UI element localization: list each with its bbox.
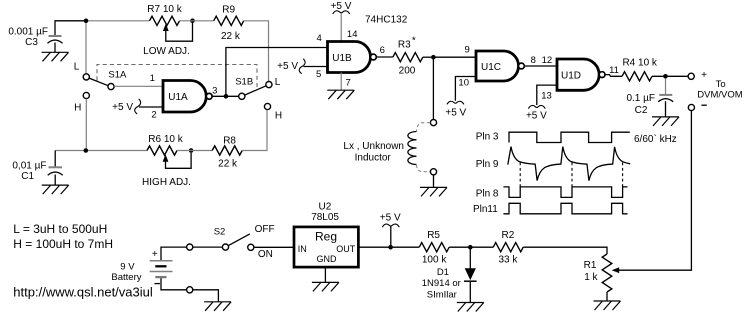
wire regulator OUT to R5 bbox=[358, 246, 419, 248]
svg-text:6/60` kHz: 6/60` kHz bbox=[634, 133, 677, 145]
wire pin3 node up and right to U1B pin4 bbox=[226, 48, 328, 97]
terminal Lx top circle bbox=[430, 120, 436, 126]
svg-text:+5 V: +5 V bbox=[112, 102, 133, 113]
battery B1 bbox=[150, 260, 173, 262]
node R7 bracket to top wire bbox=[190, 19, 195, 24]
svg-text:http://www.qsl.net/va3iul: http://www.qsl.net/va3iul bbox=[13, 285, 153, 300]
terminal Lx bottom circle bbox=[430, 169, 436, 175]
svg-text:78L05: 78L05 bbox=[311, 212, 339, 223]
capacitor C1 bbox=[54, 151, 56, 167]
nand gate U1C bbox=[476, 51, 519, 81]
svg-text:R4 10 k: R4 10 k bbox=[622, 57, 657, 68]
svg-text:6: 6 bbox=[380, 45, 385, 56]
switch S1B common contact bbox=[239, 93, 245, 99]
svg-text:R9: R9 bbox=[222, 4, 235, 15]
switch S1A blade bbox=[89, 78, 108, 86]
svg-text:Pln 3: Pln 3 bbox=[476, 132, 499, 143]
svg-text:0.001 µF: 0.001 µF bbox=[8, 27, 48, 38]
svg-text:R2: R2 bbox=[502, 230, 515, 241]
svg-text:5: 5 bbox=[316, 69, 321, 80]
svg-text:U1A: U1A bbox=[168, 92, 188, 103]
ground U1B pin7 bbox=[327, 90, 354, 99]
svg-text:200: 200 bbox=[399, 65, 416, 76]
svg-text:+5 V: +5 V bbox=[277, 61, 298, 72]
waveform pin 8 bbox=[503, 187, 627, 198]
U1D output bubble bbox=[599, 72, 605, 78]
switch S1A H contact bbox=[83, 92, 89, 98]
R6 wiper arrow bbox=[166, 153, 192, 169]
svg-text:Battery: Battery bbox=[111, 272, 141, 283]
svg-text:10: 10 bbox=[458, 78, 469, 89]
svg-text:R8: R8 bbox=[223, 136, 236, 147]
wire R8 to S1B H contact bbox=[242, 110, 267, 151]
svg-text:22 k: 22 k bbox=[218, 159, 238, 170]
svg-text:S2: S2 bbox=[214, 227, 226, 238]
U1B output bubble bbox=[371, 54, 377, 60]
mechanical linkage dashed S1A to S1B bbox=[97, 65, 257, 89]
U1C output bubble bbox=[519, 63, 525, 69]
svg-text:D1: D1 bbox=[437, 267, 449, 278]
svg-text:Pln 8: Pln 8 bbox=[476, 189, 499, 200]
+5V brace at U1B pin5 bbox=[299, 59, 305, 74]
wire R6 row left segment bbox=[55, 150, 147, 152]
waveform pin 9 bbox=[508, 147, 631, 181]
wire R2 to R1 bbox=[523, 247, 607, 254]
waveform pin 11 bbox=[503, 203, 627, 214]
nand gate U1A bbox=[163, 81, 206, 113]
waveform pin 3 bbox=[509, 132, 630, 142]
label minus sign bbox=[701, 104, 706, 106]
resistor R4 bbox=[622, 72, 652, 81]
wire pin14 down to U1B bbox=[340, 13, 342, 42]
wire top row dot to R7 bbox=[86, 20, 150, 22]
wire connector to S2 pole bbox=[193, 246, 223, 248]
svg-text:13: 13 bbox=[541, 90, 552, 101]
svg-text:3: 3 bbox=[212, 85, 217, 96]
svg-text:S1A: S1A bbox=[108, 69, 127, 80]
wire R5 to R2 bbox=[449, 246, 493, 248]
terminal minus circle bbox=[688, 104, 694, 110]
svg-text:DVM/VOM: DVM/VOM bbox=[697, 89, 742, 100]
svg-text:H: H bbox=[74, 102, 81, 113]
node R6 row to S1A H bbox=[84, 148, 89, 153]
connector circle bottom wire bbox=[187, 287, 193, 293]
switch S1B L contact bbox=[266, 82, 272, 88]
wire node down to D1 bbox=[469, 250, 471, 270]
diode D1 bbox=[465, 268, 476, 280]
wire node down to C2 bbox=[665, 79, 667, 95]
node R4 C2 plus terminal bbox=[663, 74, 668, 79]
wire Lx bottom to ground bbox=[433, 175, 435, 188]
svg-text:LOW ADJ.: LOW ADJ. bbox=[143, 46, 190, 57]
wire R3 to node bbox=[423, 56, 434, 58]
svg-text:0,01 µF: 0,01 µF bbox=[12, 160, 46, 171]
wire U1C output to U1D pin12 bbox=[524, 65, 557, 67]
svg-text:1: 1 bbox=[150, 73, 155, 84]
svg-text:Reg: Reg bbox=[315, 230, 337, 244]
svg-text:H: H bbox=[275, 110, 282, 121]
resistor R7 bbox=[150, 16, 180, 25]
svg-text:14: 14 bbox=[347, 29, 358, 40]
svg-text:9 V: 9 V bbox=[120, 262, 135, 273]
capacitor C3 bbox=[49, 35, 62, 37]
wire U1B output to R3 bbox=[376, 56, 393, 58]
+5V squiggle at U1C pin10 bbox=[447, 101, 464, 104]
ground C2 bbox=[652, 117, 679, 126]
svg-text:7: 7 bbox=[346, 77, 351, 88]
wire connector to battery ground bbox=[193, 290, 219, 302]
svg-text:OFF: OFF bbox=[255, 224, 275, 235]
wire R1 to ground bbox=[606, 292, 608, 301]
svg-text:4: 4 bbox=[317, 33, 322, 44]
svg-text:C3: C3 bbox=[25, 37, 38, 48]
potentiometer R1 bbox=[602, 254, 612, 292]
capacitor C2 bbox=[659, 94, 672, 96]
node R5 R2 D1 bbox=[468, 245, 473, 250]
svg-text:+: + bbox=[152, 249, 158, 260]
svg-text:R7 10 k: R7 10 k bbox=[147, 4, 182, 15]
+5V squiggle at regulator out bbox=[382, 224, 399, 227]
wire U1A pin3 to S1B common bbox=[212, 95, 239, 97]
resistor R8 bbox=[212, 146, 242, 155]
ground C1 bbox=[42, 185, 69, 194]
wire battery minus to ground bbox=[161, 278, 187, 290]
wire top row C3 to R7 bbox=[55, 21, 86, 36]
svg-text:1N914 or: 1N914 or bbox=[422, 278, 461, 289]
resistor R2 bbox=[493, 243, 523, 252]
svg-text:11: 11 bbox=[609, 65, 619, 76]
svg-text:IN: IN bbox=[298, 244, 307, 254]
wire S1A common to U1A pin1 bbox=[114, 85, 163, 87]
svg-text:To: To bbox=[716, 79, 726, 90]
U1A output bubble bbox=[206, 93, 212, 99]
svg-text:R6 10 k: R6 10 k bbox=[148, 134, 183, 145]
svg-text:C1: C1 bbox=[21, 171, 34, 182]
ground C3 bbox=[42, 52, 69, 61]
wire +5V to U1B pin5 bbox=[304, 66, 328, 68]
svg-text:+: + bbox=[701, 70, 707, 81]
R7 wiper arrow bbox=[166, 23, 193, 41]
svg-text:Lx , Unknown: Lx , Unknown bbox=[343, 141, 404, 152]
svg-text:8: 8 bbox=[531, 55, 536, 66]
node regulator out +5V R5 bbox=[388, 245, 393, 250]
svg-text:L: L bbox=[275, 77, 281, 88]
svg-text:74HC132: 74HC132 bbox=[365, 15, 408, 26]
switch S1B blade bbox=[245, 86, 267, 95]
switch S2 blade bbox=[228, 234, 250, 246]
ground battery bbox=[204, 302, 231, 311]
+5V brace at U1A pin2 bbox=[135, 99, 141, 114]
svg-text:22 k: 22 k bbox=[221, 31, 241, 42]
wire U1C pin10 to +5V bbox=[455, 77, 476, 101]
svg-text:R1: R1 bbox=[584, 260, 597, 271]
svg-text:+5 V: +5 V bbox=[380, 212, 401, 223]
svg-text:1 k: 1 k bbox=[584, 272, 598, 283]
wire U1B pin7 to ground bbox=[340, 73, 342, 91]
svg-text:S1B: S1B bbox=[235, 77, 253, 88]
svg-text:2: 2 bbox=[151, 109, 156, 120]
regulator U2 78L05 box bbox=[294, 227, 358, 267]
inductor Lx coil bbox=[408, 132, 417, 165]
svg-text:U1C: U1C bbox=[481, 62, 501, 73]
wire U1D pin13 to +5V bbox=[537, 85, 557, 105]
wire R6 to R8 bbox=[177, 150, 212, 152]
+5V squiggle at U1D pin13 bbox=[528, 105, 545, 108]
wire +5V squiggle down to node bbox=[390, 226, 392, 247]
wire S2 to regulator IN bbox=[254, 246, 294, 248]
ground D1 bbox=[457, 303, 484, 312]
node R6 bracket to row bbox=[189, 148, 194, 153]
ground Lx bbox=[420, 187, 447, 196]
wire +5V to U1A pin2 bbox=[139, 106, 163, 108]
wire S1A H down to R6 row bbox=[85, 99, 87, 151]
dashed timing line 1 bbox=[519, 163, 521, 187]
svg-text:H = 100uH to 7mH: H = 100uH to 7mH bbox=[13, 237, 113, 251]
terminal plus circle bbox=[688, 73, 694, 79]
switch S1A L contact bbox=[83, 74, 89, 80]
svg-text:Pln 9: Pln 9 bbox=[476, 159, 499, 170]
svg-text:9: 9 bbox=[465, 45, 470, 56]
svg-text:Pln11: Pln11 bbox=[473, 204, 498, 215]
svg-text:R5: R5 bbox=[427, 230, 440, 241]
svg-text:OUT: OUT bbox=[336, 244, 356, 254]
svg-text:SImIlar: SImIlar bbox=[427, 290, 457, 301]
R1 wiper arrowhead bbox=[612, 267, 620, 273]
resistor R9 bbox=[214, 16, 244, 25]
+5V squiggle at U1B pin14 bbox=[333, 11, 350, 14]
svg-text:R3: R3 bbox=[398, 40, 411, 51]
svg-text:*: * bbox=[412, 36, 416, 47]
switch S1A common contact bbox=[108, 84, 114, 90]
svg-text:U1D: U1D bbox=[561, 71, 581, 82]
svg-text:U2: U2 bbox=[319, 202, 332, 213]
svg-text:C2: C2 bbox=[635, 105, 648, 116]
resistor R6 bbox=[147, 146, 177, 155]
wire S1A L contact up to top wire bbox=[85, 23, 87, 74]
wire regulator GND to ground bbox=[324, 267, 326, 282]
node top wire to S1A L bbox=[84, 19, 89, 24]
wire R7 to R9 bbox=[180, 20, 214, 22]
dashed timing line 2 bbox=[571, 163, 573, 187]
switch S2 ON contact bbox=[248, 244, 254, 250]
switch S2 pole contact bbox=[222, 244, 228, 250]
svg-text:U1B: U1B bbox=[332, 53, 352, 64]
label battery minus bbox=[155, 283, 160, 285]
switch S1B H contact bbox=[264, 103, 270, 109]
svg-text:+5 V: +5 V bbox=[331, 1, 352, 12]
svg-text:0.1 µF: 0.1 µF bbox=[626, 93, 655, 104]
wire D1 to ground bbox=[469, 282, 471, 303]
svg-text:L: L bbox=[74, 62, 80, 73]
dashed timing line 3 bbox=[622, 163, 624, 187]
connector circle top wire bbox=[187, 244, 193, 250]
svg-text:33 k: 33 k bbox=[498, 254, 518, 265]
wire node to U1C pin9 bbox=[433, 56, 476, 58]
svg-text:HIGH ADJ.: HIGH ADJ. bbox=[142, 177, 191, 188]
wire node down to Lx terminal bbox=[432, 57, 434, 119]
Lx top lead dashed bbox=[417, 123, 431, 132]
resistor R5 bbox=[419, 243, 449, 252]
resistor R3 bbox=[393, 53, 423, 62]
wire R4 to output node bbox=[652, 75, 688, 77]
wire R9 to S1B L contact bbox=[244, 21, 269, 82]
svg-text:+5 V: +5 V bbox=[526, 110, 547, 121]
wire U1D output to R4 bbox=[605, 75, 622, 77]
nand gate U1D bbox=[557, 59, 599, 90]
svg-text:L = 3uH to 500uH: L = 3uH to 500uH bbox=[13, 222, 107, 236]
node R3 U1C pin9 Lx bbox=[431, 55, 436, 60]
Lx bottom lead dashed bbox=[417, 165, 431, 172]
wire battery plus to S2 bbox=[161, 247, 187, 260]
svg-text:100 k: 100 k bbox=[422, 254, 447, 265]
svg-text:Inductor: Inductor bbox=[355, 152, 392, 163]
svg-text:GND: GND bbox=[317, 254, 338, 264]
ground R1 bbox=[594, 301, 621, 310]
svg-text:12: 12 bbox=[542, 55, 553, 66]
wire minus terminal down to R1 wiper arrow bbox=[616, 111, 691, 271]
svg-text:+5 V: +5 V bbox=[445, 108, 466, 119]
svg-text:ON: ON bbox=[258, 249, 273, 260]
ground regulator bbox=[312, 282, 339, 291]
nand gate U1B bbox=[328, 42, 371, 73]
node pin3 to U1B pin4 wire bbox=[224, 94, 229, 99]
